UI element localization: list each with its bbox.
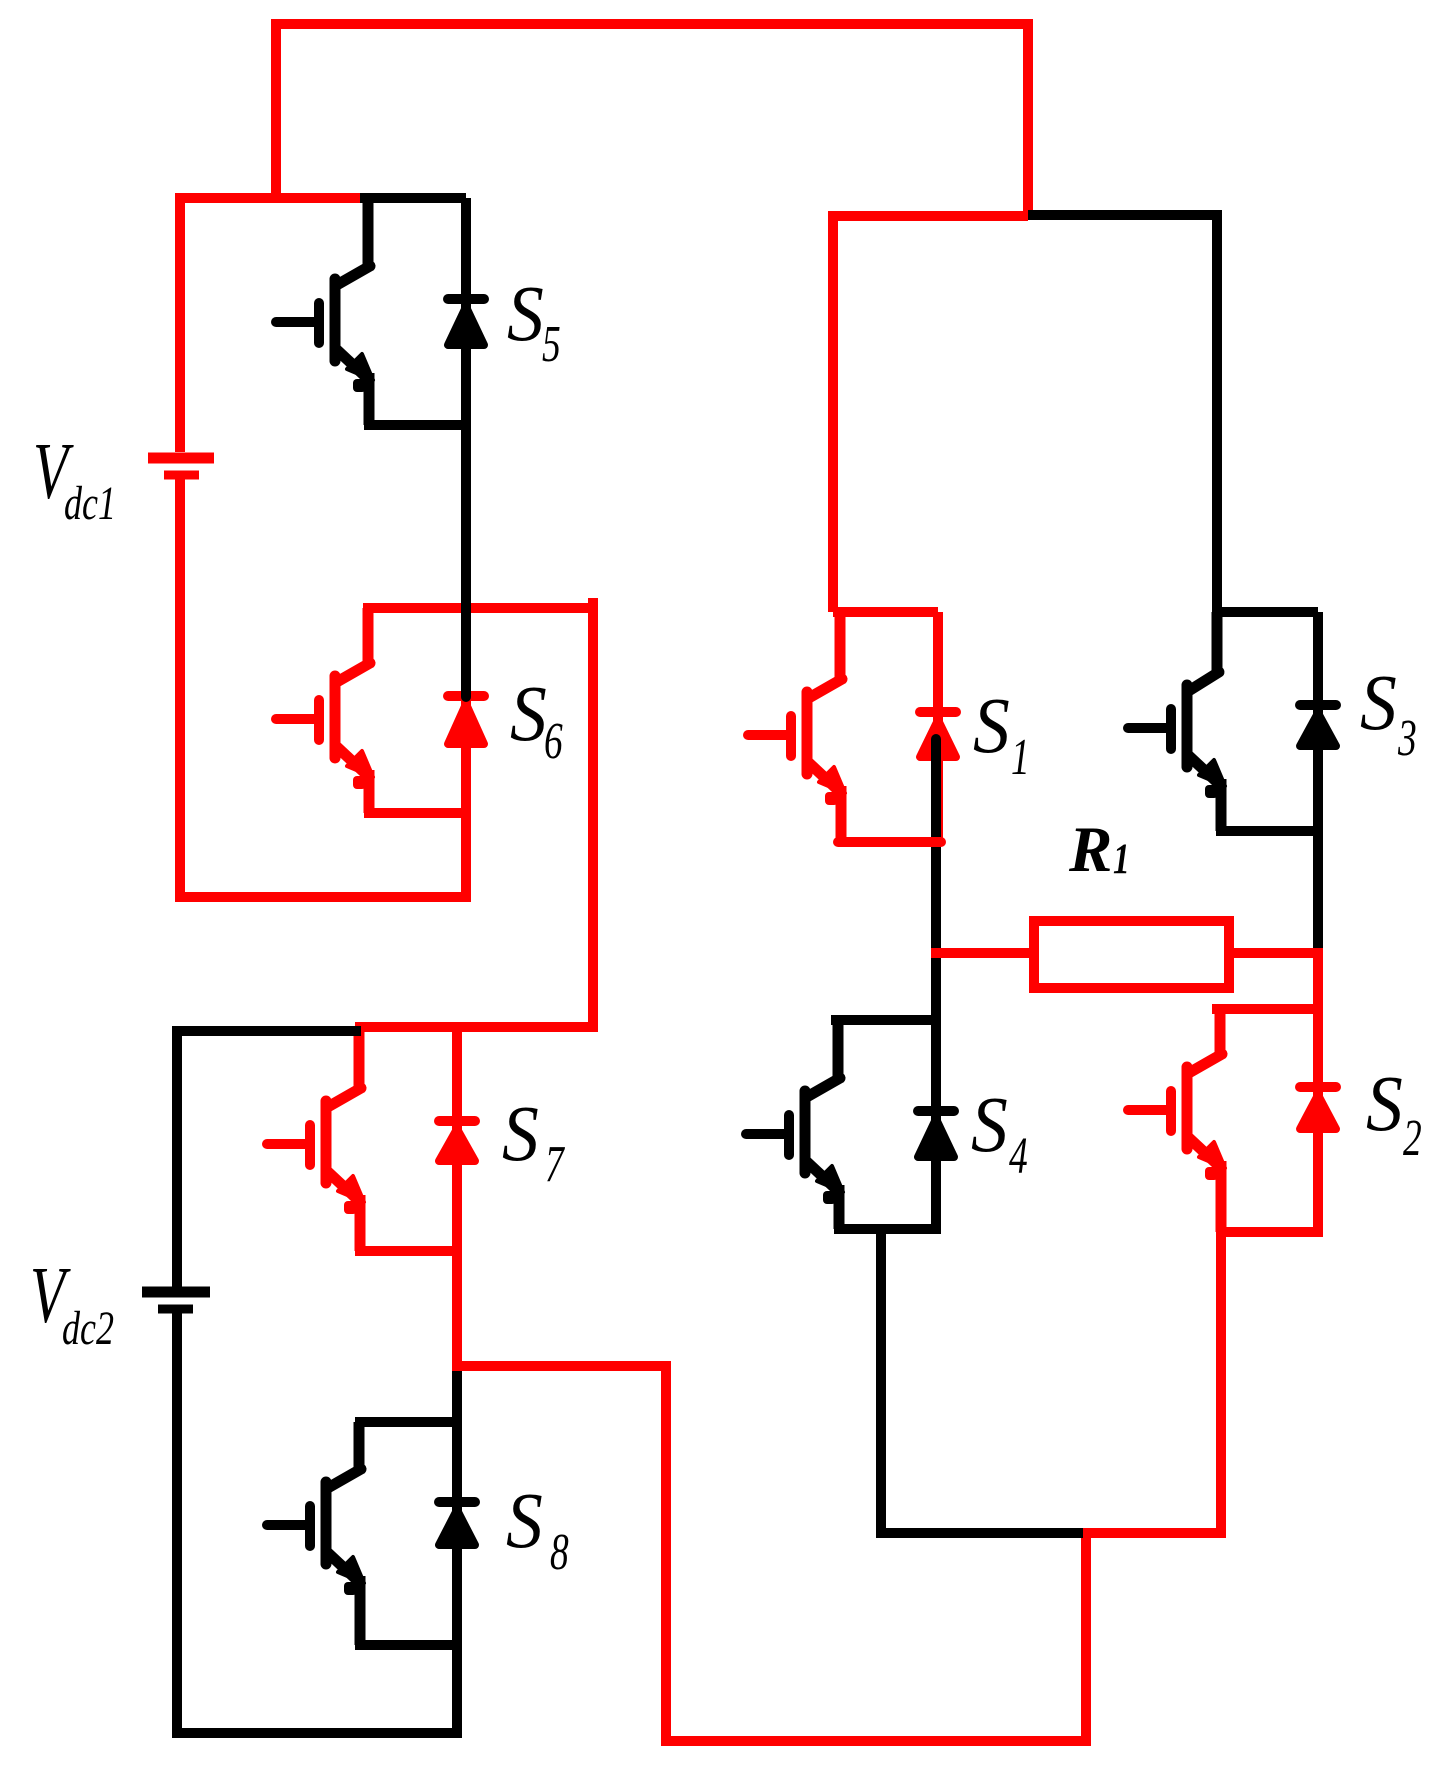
svg-text:S: S (1360, 658, 1397, 746)
svg-text:2: 2 (1403, 1109, 1422, 1166)
svg-text:S: S (502, 1089, 539, 1177)
svg-text:4: 4 (1009, 1127, 1028, 1184)
svg-text:1: 1 (1011, 728, 1030, 785)
svg-text:S: S (507, 269, 544, 357)
svg-text:S: S (506, 1476, 543, 1564)
svg-text:dc1: dc1 (64, 477, 116, 530)
svg-text:7: 7 (545, 1135, 566, 1192)
svg-text:8: 8 (550, 1523, 569, 1580)
svg-text:1: 1 (1113, 836, 1130, 883)
svg-text:R: R (1068, 814, 1112, 886)
svg-text:S: S (1366, 1059, 1403, 1147)
svg-text:S: S (510, 669, 547, 757)
svg-text:5: 5 (542, 315, 561, 372)
svg-text:S: S (971, 1080, 1008, 1168)
svg-text:6: 6 (544, 712, 563, 769)
svg-text:S: S (973, 681, 1010, 769)
svg-text:3: 3 (1397, 709, 1417, 766)
svg-text:dc2: dc2 (62, 1302, 114, 1355)
